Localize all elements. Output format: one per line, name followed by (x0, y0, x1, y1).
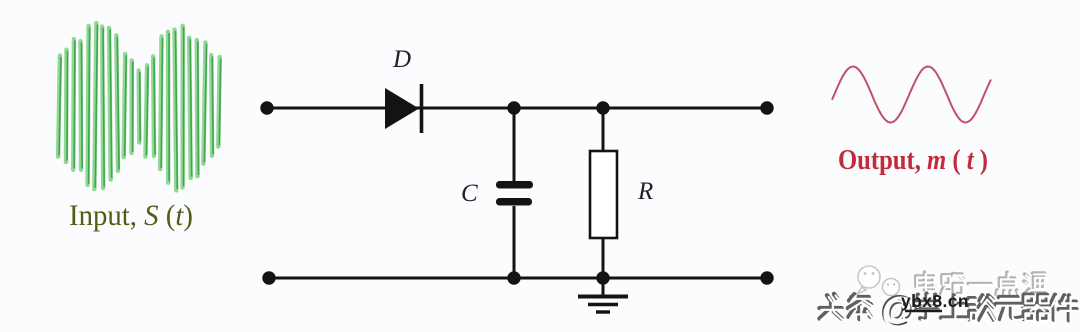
svg-text:ybx8.cn: ybx8.cn (901, 291, 969, 311)
svg-text:D: D (392, 46, 411, 73)
svg-text:Input, S (t): Input, S (t) (69, 199, 193, 232)
svg-text:Output, m ( t ): Output, m ( t ) (838, 143, 988, 175)
svg-text:C: C (461, 180, 478, 207)
svg-text:R: R (637, 178, 653, 205)
